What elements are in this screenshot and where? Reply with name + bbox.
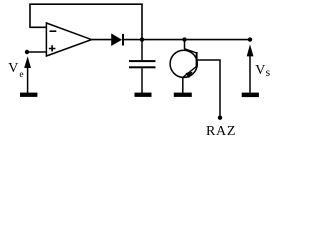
arrowhead Ve: [24, 56, 31, 68]
transistor Q1 emitter slant: [183, 67, 197, 78]
wire: collector node to Vs node: [185, 39, 251, 41]
wire: node A to collector node: [142, 39, 185, 41]
arrowhead Vs: [247, 44, 254, 56]
ground (emitter): [174, 93, 192, 97]
transistor Q1: [170, 37, 222, 120]
op-amp U1: [46, 23, 91, 56]
wire: capacitor bottom plate to ground: [141, 68, 143, 93]
node A (diode / capacitor / feedback junction): [140, 37, 144, 41]
capacitor C1 bottom plate: [129, 66, 156, 68]
label RAZ: [206, 125, 236, 139]
wire: Vs arrow shaft: [249, 55, 251, 93]
transistor Q1 body circle: [170, 50, 197, 77]
label Ve (subscript e): [19, 71, 23, 81]
capacitor C1: [129, 40, 156, 97]
wire: base lead right then down to RAZ: [198, 60, 220, 118]
op-amp U1 inverting (-) mark: [50, 30, 57, 32]
node: Ve input node: [25, 50, 29, 54]
transistor Q1 base bar: [196, 52, 198, 68]
label Vs (subscript s): [266, 68, 270, 80]
wire: emitter lead to ground: [182, 77, 184, 92]
node: RAZ terminal dot: [218, 116, 222, 120]
diode D1 cathode bar: [122, 34, 124, 46]
wire: diode cathode to node A: [123, 39, 142, 41]
source arrow Ve: [20, 56, 37, 97]
source arrow Vs: [242, 44, 259, 97]
wire: collector lead down into Q1: [184, 40, 186, 49]
node: collector junction on output rail: [182, 37, 186, 41]
transistor Q1 emitter arrow (PNP, pointing to base): [186, 72, 193, 79]
ground (Ve source): [20, 93, 37, 97]
ground (Vs): [242, 93, 259, 98]
wire: node A down to capacitor top plate: [141, 40, 143, 61]
op-amp U1 non-inverting (+) mark: [49, 45, 56, 51]
label Vs (V): [255, 64, 265, 78]
label Ve (V): [8, 62, 18, 76]
wire: op-amp output to diode anode: [92, 39, 113, 41]
ground (capacitor): [135, 93, 152, 97]
node: Vs output node (end dot): [248, 37, 252, 41]
wire: Ve node to non-inverting input: [27, 51, 46, 53]
wire: Ve arrow shaft: [27, 66, 29, 93]
diode D1: [112, 34, 123, 46]
wire: inverting-input stub: [30, 26, 46, 28]
transistor Q1 collector slant: [184, 49, 196, 53]
capacitor C1 top plate: [129, 60, 156, 62]
wire: feedback loop (left riser, top run, right drop to output node): [30, 4, 142, 39]
